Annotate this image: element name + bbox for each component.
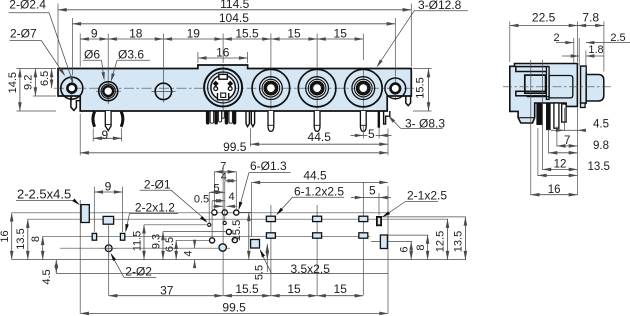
dim 8 (fp right) [427, 235, 429, 260]
svg-text:12.5: 12.5 [435, 231, 447, 252]
dim 4 (fp) [194, 240, 196, 248]
dim 9.8 (side) [549, 152, 578, 154]
pad 1.2x2.5 row1 col1 [266, 216, 275, 221]
svg-text:16: 16 [0, 230, 11, 242]
svg-text:6.5: 6.5 [164, 237, 176, 252]
dim 114.5 extension lines [57, 4, 59, 67]
pad 2.5x4.5 vertical [81, 205, 89, 223]
dim 9 (bottom legs) [93, 137, 121, 139]
dim 19 [163, 38, 223, 40]
dim 7 (fp) [214, 171, 236, 173]
dim 8 (fp) [42, 236, 44, 259]
svg-text:2-1x2.5: 2-1x2.5 [407, 189, 447, 203]
dim 15.5 (DIN to RCA1) [223, 38, 271, 40]
svg-text:4: 4 [229, 191, 235, 203]
front view jack center pin [105, 111, 111, 131]
RCA jack 1 center pin [268, 111, 274, 131]
dim 4.5 (side) [551, 129, 564, 131]
side view: panel plate [581, 66, 587, 103]
side view: barrel interior [549, 76, 573, 98]
dim 5 (fp right) [351, 197, 363, 199]
dim 13.5 (side) [538, 174, 578, 176]
dim 9 (fp) [94, 191, 122, 193]
svg-text:9: 9 [91, 26, 98, 40]
dim 104.5 extension lines [71, 18, 73, 75]
dim 16 extension lines [197, 52, 199, 63]
mini-DIN footprint hole E [226, 229, 231, 234]
svg-text:5: 5 [369, 184, 376, 198]
dim 6.5 [51, 69, 53, 89]
svg-text:4: 4 [183, 250, 195, 256]
pad 1.2x2.5 row1 col2 [313, 216, 322, 221]
dim 18 [108, 38, 163, 40]
hole 2-D2 center [219, 244, 226, 251]
svg-text:9.2: 9.2 [23, 75, 35, 90]
side top dim ext lines [509, 22, 511, 63]
plain hole [152, 90, 176, 92]
dim 2.5 [586, 42, 630, 44]
dim 15 (RCA1-RCA2) [271, 38, 317, 40]
svg-text:16: 16 [548, 184, 561, 196]
dim 16 (fp) [11, 213, 13, 260]
side view: jack cavity [525, 75, 546, 93]
svg-text:7.8: 7.8 [582, 11, 599, 25]
pad 1x2.5 [377, 217, 381, 225]
dim 9 (fp) ext [93, 187, 95, 233]
dim 9.3 (fp) [162, 232, 164, 260]
dim 99.5 (fp) [80, 312, 388, 314]
side view: white pin 3 [554, 103, 559, 128]
svg-text:14.5: 14.5 [7, 72, 19, 93]
leg bracket left of RCA1 [246, 111, 249, 127]
side view: horizontal centerline [503, 86, 612, 88]
svg-text:8: 8 [415, 244, 427, 250]
dim 11.5 (fp) [143, 225, 145, 260]
dim 7 (side) [557, 145, 578, 147]
svg-text:15: 15 [287, 282, 301, 296]
side view: leg internal line [518, 117, 535, 119]
svg-text:99.5: 99.5 [222, 301, 246, 315]
pad 1.2x2.5 row1 col3 [359, 216, 368, 221]
bottom pitch row [109, 295, 223, 297]
dim 13.5 (fp) [27, 219, 29, 259]
svg-text:2-2.5x4.5: 2-2.5x4.5 [17, 187, 71, 202]
svg-text:15: 15 [287, 26, 301, 40]
dim 44.5 (front) [250, 143, 388, 145]
dim 5 (RCA3 to leg) [351, 134, 364, 136]
svg-text:Ø3.6: Ø3.6 [118, 47, 144, 61]
dim 2 [556, 42, 574, 44]
dim 13.5 (fp right) [464, 217, 466, 260]
mini-DIN footprint hole G [232, 238, 237, 243]
svg-text:9: 9 [105, 179, 112, 193]
mini-DIN solder pins [206, 111, 209, 124]
pad 1.2x2.5 row2 col1 [266, 233, 275, 238]
dim 14.5 [19, 69, 21, 112]
dim 15.5 right extension [413, 68, 432, 70]
svg-text:2-Ø7: 2-Ø7 [10, 27, 37, 41]
dim 6.5 (fp) [175, 240, 177, 259]
RCA jack 3 [362, 68, 364, 110]
dim 7.8 [577, 25, 604, 27]
svg-text:11.5: 11.5 [132, 231, 144, 252]
left dims extension lines [17, 68, 57, 70]
svg-text:6-Ø1.3: 6-Ø1.3 [250, 159, 287, 173]
svg-text:6: 6 [399, 246, 411, 252]
dim 16 (DIN housing) [198, 57, 248, 59]
svg-text:8: 8 [30, 236, 42, 242]
front view jack bracket legs [93, 112, 95, 127]
mini-DIN footprint hole B [234, 210, 239, 215]
dim 9.2 [34, 69, 36, 97]
svg-text:4.5: 4.5 [41, 269, 53, 284]
dim 4.5 (fp) [55, 260, 57, 274]
side view: black pin 1 [537, 103, 543, 125]
mini-DIN footprint hole D (D1) [223, 221, 226, 224]
svg-text:4: 4 [221, 171, 227, 183]
dim 99.5 ext [79, 114, 81, 156]
svg-text:19: 19 [187, 26, 201, 40]
pad 2.5x4.5 horizontal [103, 216, 114, 224]
front view: main horizontal centerline [54, 87, 414, 89]
top pitch dim extension lines [79, 34, 81, 67]
svg-text:9.3: 9.3 [151, 234, 163, 249]
dim 15.5 (right height) [428, 69, 430, 112]
svg-text:114.5: 114.5 [220, 0, 249, 11]
svg-text:0.5: 0.5 [194, 194, 209, 206]
svg-text:9.8: 9.8 [593, 140, 609, 152]
side view: RCA barrel [586, 75, 604, 102]
svg-text:15.5: 15.5 [231, 220, 243, 241]
mini-DIN footprint hole A [222, 210, 227, 215]
mini-DIN connector face [222, 66, 224, 110]
svg-text:15: 15 [334, 26, 348, 40]
svg-text:7: 7 [564, 135, 570, 147]
svg-text:9: 9 [101, 128, 108, 142]
svg-text:37: 37 [160, 284, 174, 298]
svg-text:15: 15 [334, 282, 348, 296]
hole 2-D2 left [105, 245, 112, 252]
svg-text:2-Ø1: 2-Ø1 [144, 178, 171, 192]
pad 3.5x2.5 [251, 240, 260, 249]
svg-text:3-Ø12.8: 3-Ø12.8 [418, 0, 462, 12]
dim 44.5 ext [249, 129, 251, 147]
side bottom dim ext lines [530, 60, 532, 195]
svg-text:2: 2 [553, 32, 559, 44]
footprint long reference lines [12, 212, 389, 214]
dim 114.5 [58, 9, 411, 11]
dim 12.5 (fp right) [447, 219, 449, 259]
DIN cluster ext lines [213, 172, 215, 209]
dim 15.5 (fp left) [248, 212, 250, 259]
svg-text:Ø6: Ø6 [84, 47, 100, 61]
side view: jack inner top bar [516, 67, 548, 72]
svg-text:44.5: 44.5 [308, 130, 332, 144]
svg-text:99.5: 99.5 [223, 140, 247, 154]
svg-text:13.5: 13.5 [15, 228, 27, 249]
side view: jack inner bottom bar [516, 91, 548, 96]
pad 2x1.2 left [92, 233, 96, 240]
svg-text:6.5: 6.5 [39, 71, 51, 86]
RCA jack 3 center pin [360, 111, 366, 131]
svg-text:16: 16 [216, 45, 230, 59]
ground leg near right flange [378, 111, 380, 128]
svg-text:13.5: 13.5 [453, 231, 465, 252]
mini-DIN footprint hole C (D1) [208, 223, 211, 226]
dim 99.5 (front) [80, 152, 388, 154]
front view: connector body outline [58, 65, 411, 111]
svg-text:5.5: 5.5 [253, 265, 265, 280]
dim 5 ext [362, 125, 364, 139]
dim 9 (bottom legs) ext [92, 129, 94, 142]
svg-text:104.5: 104.5 [219, 11, 249, 25]
svg-text:22.5: 22.5 [532, 11, 556, 25]
RCA jack 2 [316, 68, 318, 110]
dim 22.5 [510, 25, 578, 27]
svg-text:1.8: 1.8 [588, 44, 603, 56]
pad right flange big [380, 235, 387, 249]
dim 1.8 [562, 55, 579, 57]
svg-text:5: 5 [213, 183, 219, 195]
dim 6 (fp right) [410, 242, 412, 260]
svg-text:15.5: 15.5 [235, 26, 259, 40]
pad 1.2x2.5 row2 col2 [313, 233, 322, 238]
dim 9 (flange to jack) [80, 38, 108, 40]
mini-DIN footprint hole I [212, 210, 217, 215]
footprint column centerlines [79, 200, 81, 313]
side view: interior line [527, 96, 550, 98]
dim 104.5 [72, 23, 395, 25]
dim 12 (side) [543, 168, 578, 170]
side view: black pin 2 [546, 103, 550, 130]
front view left hook leg [71, 96, 80, 111]
svg-text:2-Ø2: 2-Ø2 [125, 264, 152, 278]
mounting hole left (2-D7 / 2-D2.4) [71, 76, 73, 101]
svg-text:18: 18 [129, 26, 143, 40]
dim 44.5 (fp) [252, 181, 389, 183]
side view: white pin 4 [562, 104, 566, 122]
svg-text:13.5: 13.5 [588, 161, 610, 173]
pad 1.2x2.5 row2 col3 [359, 233, 368, 238]
RCA jack 1 [270, 68, 272, 110]
side view: jack vertical bar [546, 67, 549, 100]
dim 4b (fp DIN) [212, 200, 225, 202]
svg-text:6-1.2x2.5: 6-1.2x2.5 [294, 184, 344, 198]
svg-text:4.5: 4.5 [593, 118, 609, 130]
dim 0.5 (fp) [213, 205, 223, 207]
svg-text:3.5x2.5: 3.5x2.5 [291, 262, 331, 276]
dim 16 (side) [531, 194, 578, 196]
pad 2x1.2 right [120, 233, 124, 240]
svg-text:2-Ø2.4: 2-Ø2.4 [9, 0, 46, 12]
svg-text:15.5: 15.5 [414, 77, 426, 98]
side view: body outline [510, 64, 578, 124]
svg-text:2-2x1.2: 2-2x1.2 [135, 201, 175, 215]
svg-text:44.5: 44.5 [303, 169, 327, 183]
svg-text:15.5: 15.5 [235, 282, 259, 296]
RCA jack 2 center pin [314, 111, 320, 131]
mounting hole right (3-D8.3) [394, 77, 396, 101]
dim 5.5 (fp) [266, 244, 268, 260]
dim 5 (fp DIN) [209, 191, 225, 193]
front view right hook leg [406, 96, 411, 106]
dim 4 (fp DIN) [225, 180, 237, 182]
phone jack D6/D3.6 [96, 90, 121, 92]
svg-text:2.5: 2.5 [610, 32, 625, 44]
dim 15 (RCA2-RCA3) [317, 38, 363, 40]
svg-text:5: 5 [368, 127, 375, 141]
mini-DIN footprint hole F [210, 238, 215, 243]
svg-text:12: 12 [554, 158, 567, 170]
